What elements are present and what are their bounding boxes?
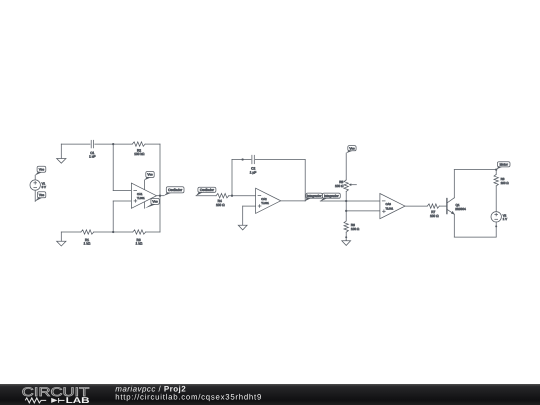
svg-text:http://circuitlab.com/cqsex35r: http://circuitlab.com/cqsex35rhdht9 (115, 392, 262, 401)
svg-text:LAB: LAB (66, 395, 90, 405)
